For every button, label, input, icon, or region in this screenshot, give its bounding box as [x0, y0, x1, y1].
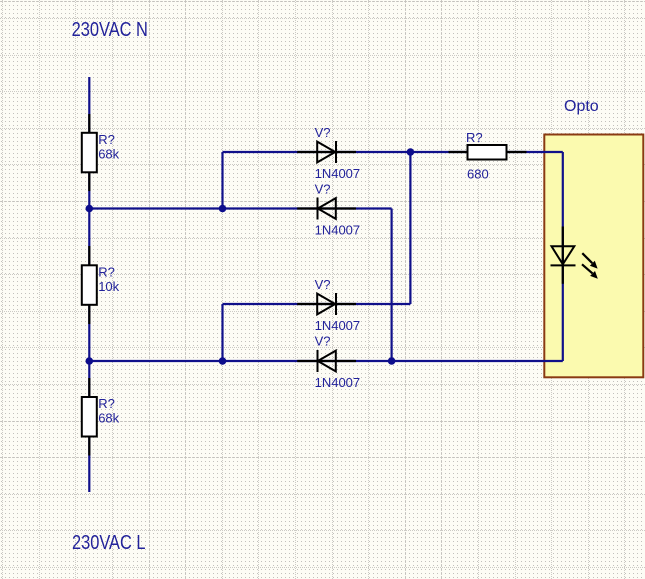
svg-text:R?: R? — [98, 132, 115, 147]
LED D1 inside opto (points down) — [551, 246, 576, 265]
resistor R4 pins — [449, 151, 527, 153]
junction node A at V1 riser — [219, 205, 227, 213]
resistor R3 (R? 68k) — [82, 397, 97, 437]
resistor R3 pin 1 — [88, 378, 90, 397]
svg-text:V?: V? — [315, 334, 331, 349]
diode V3 (1N4007, points right) — [317, 293, 336, 315]
wire row node B / LED return — [89, 360, 563, 362]
svg-text:V?: V? — [315, 277, 331, 292]
svg-text:1N4007: 1N4007 — [315, 375, 361, 390]
junction DC+ node at V1 cathode — [407, 148, 415, 156]
wire main vertical 230VAC chain — [88, 77, 90, 492]
svg-text:680: 680 — [467, 167, 489, 182]
wire LED drop — [562, 152, 564, 361]
diode V2 (1N4007, points left) — [318, 198, 336, 220]
svg-text:230VAC N: 230VAC N — [72, 18, 148, 41]
junction node B at V3 riser — [219, 357, 227, 365]
resistor R1 (R? 68k) — [82, 133, 97, 173]
resistor R1 pin 2 — [88, 172, 90, 191]
svg-text:V?: V? — [315, 125, 331, 140]
svg-text:R?: R? — [98, 396, 115, 411]
LED D1 pins — [562, 227, 564, 284]
svg-text:R?: R? — [98, 264, 115, 279]
svg-text:V?: V? — [315, 182, 331, 197]
diode V4 (1N4007, points left) — [318, 350, 336, 372]
wire row D3 — [223, 303, 411, 305]
resistor R1 pin 1 — [88, 114, 90, 133]
svg-text:1N4007: 1N4007 — [315, 318, 361, 333]
svg-text:230VAC L: 230VAC L — [72, 531, 146, 554]
resistor R2 pin 2 — [88, 305, 90, 324]
LED arrow 1 — [582, 253, 597, 268]
svg-text:Opto: Opto — [564, 98, 599, 115]
svg-text:1N4007: 1N4007 — [315, 223, 361, 238]
resistor R2 pin 1 — [88, 246, 90, 265]
wire riser node A upper — [221, 152, 223, 209]
svg-text:68k: 68k — [98, 411, 119, 426]
resistor R3 pin 2 — [88, 437, 90, 456]
junction DC- node at V2 riser — [388, 357, 396, 365]
diode V1 (1N4007, points right) — [317, 141, 336, 163]
wire row D1 to opto — [223, 151, 563, 153]
diode V1 pins — [297, 151, 356, 153]
svg-text:68k: 68k — [98, 147, 119, 162]
resistor R2 (R? 10k) — [82, 265, 97, 305]
wire riser DC- — [391, 209, 393, 362]
junction node B at R2/R3 tap — [86, 357, 94, 365]
diode V4 pins — [297, 360, 356, 362]
diode V3 pins — [297, 303, 356, 305]
opto module body (yellow sheet symbol) — [544, 135, 643, 378]
resistor R4 (R? 680) — [468, 145, 507, 160]
wire riser DC+ — [409, 152, 411, 304]
junction node A at R1/R2 tap — [86, 205, 94, 213]
wire riser node B — [221, 304, 223, 361]
LED arrow 2 — [582, 264, 598, 279]
svg-text:10k: 10k — [98, 279, 119, 294]
wire row node A — [89, 207, 391, 209]
diode V2 pins — [297, 207, 356, 209]
svg-text:R?: R? — [466, 130, 483, 145]
svg-text:1N4007: 1N4007 — [315, 166, 361, 181]
